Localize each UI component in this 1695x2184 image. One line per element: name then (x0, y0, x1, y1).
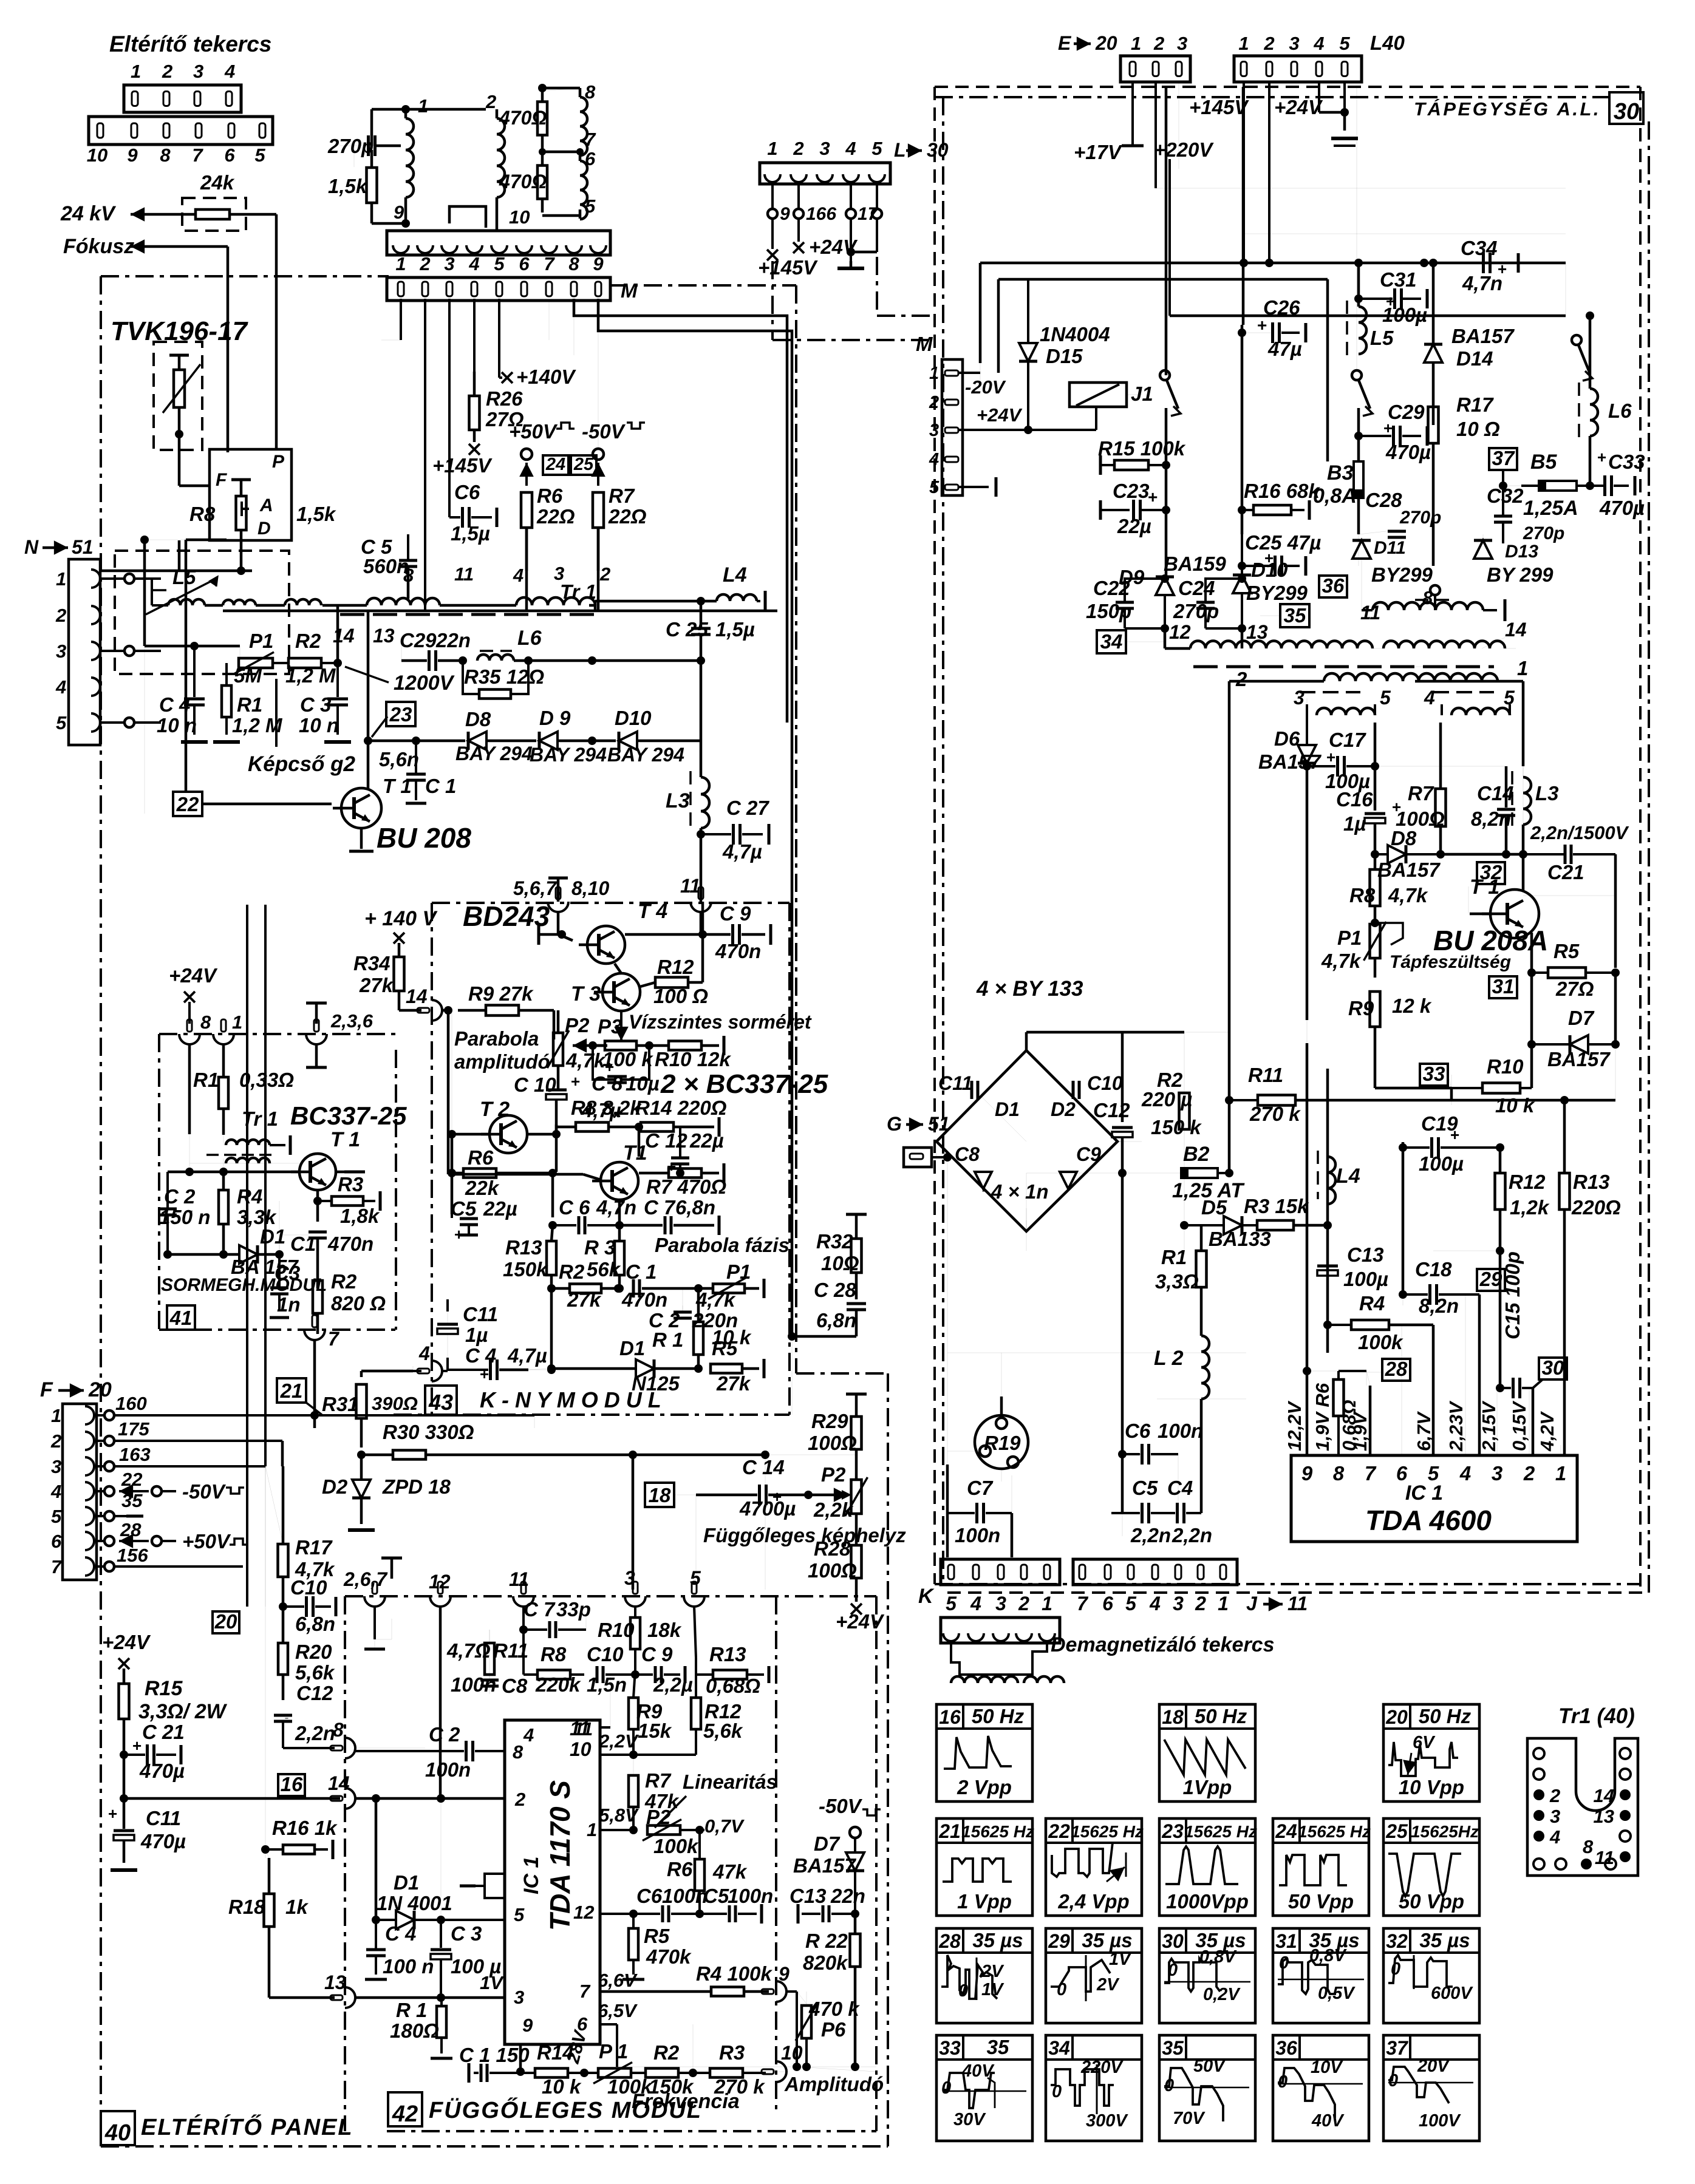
svg-text:2,2n: 2,2n (1130, 1524, 1171, 1546)
svg-text:20: 20 (1385, 1706, 1408, 1728)
svg-text:6,8n: 6,8n (675, 1196, 715, 1219)
svg-text:C 1: C 1 (425, 775, 456, 797)
svg-text:D 9: D 9 (539, 707, 571, 729)
svg-text:2: 2 (1263, 33, 1274, 54)
svg-text:R20: R20 (295, 1641, 332, 1663)
svg-text:5: 5 (871, 138, 882, 159)
svg-text:TDA 1170 S: TDA 1170 S (544, 1780, 576, 1931)
svg-text:amplitudó: amplitudó (454, 1050, 550, 1073)
svg-text:10 k: 10 k (542, 2075, 582, 2098)
svg-text:820 Ω: 820 Ω (331, 1292, 386, 1315)
waveform box 18 (1159, 1704, 1255, 1801)
svg-text:F: F (40, 1378, 53, 1401)
svg-text:C7: C7 (967, 1477, 994, 1499)
svg-text:1,9V: 1,9V (1349, 1411, 1371, 1451)
svg-text:Linearitás: Linearitás (683, 1771, 777, 1793)
svg-text:22Ω: 22Ω (608, 505, 647, 528)
svg-text:1V: 1V (1109, 1950, 1132, 1969)
svg-text:2: 2 (793, 138, 803, 159)
svg-text:D: D (257, 519, 271, 539)
svg-text:22µ: 22µ (483, 1197, 517, 1220)
svg-text:6: 6 (224, 145, 235, 166)
svg-text:8: 8 (1333, 1462, 1345, 1485)
svg-text:8: 8 (1422, 587, 1433, 608)
Tr1 core lines (340, 613, 598, 616)
svg-text:C8: C8 (502, 1675, 528, 1697)
svg-text:4: 4 (50, 1481, 61, 1502)
svg-text:1V: 1V (981, 1980, 1004, 1999)
svg-text:6: 6 (519, 253, 530, 274)
svg-text:L3: L3 (1535, 782, 1559, 805)
svg-text:D7: D7 (1568, 1007, 1595, 1029)
svg-text:1: 1 (1555, 1462, 1566, 1485)
svg-text:4 × BY 133: 4 × BY 133 (976, 977, 1083, 1001)
svg-text:4,7k: 4,7k (695, 1288, 736, 1311)
module 42 dashed border FUGGOLEGES MODUL (345, 1595, 876, 1597)
svg-text:C15 100p: C15 100p (1501, 1251, 1524, 1339)
svg-text:3: 3 (56, 641, 66, 662)
svg-text:C16: C16 (1336, 788, 1373, 811)
svg-text:L 2: L 2 (1154, 1347, 1184, 1370)
svg-text:R1: R1 (1161, 1246, 1187, 1268)
svg-text:50 Hz: 50 Hz (1419, 1705, 1472, 1727)
svg-text:R28: R28 (814, 1537, 851, 1560)
svg-text:100Ω: 100Ω (808, 1559, 857, 1582)
svg-text:+145V: +145V (1189, 96, 1249, 118)
box 22 label (173, 792, 202, 816)
T1 base wire (448, 1173, 583, 1176)
svg-text:100µ: 100µ (1382, 304, 1427, 326)
svg-text:L6: L6 (517, 627, 542, 650)
IC1 TDA4600 box (1291, 1455, 1577, 1542)
svg-text:14: 14 (1505, 619, 1527, 641)
svg-text:0: 0 (1164, 2076, 1174, 2095)
svg-text:Vízszintes sorméret: Vízszintes sorméret (629, 1011, 812, 1033)
bridge diamond (936, 1050, 1117, 1231)
svg-text:18: 18 (649, 1484, 671, 1506)
svg-text:2: 2 (55, 605, 66, 626)
svg-text:R31: R31 (322, 1393, 359, 1415)
box 28 label (1382, 1359, 1410, 1381)
svg-text:R7: R7 (609, 485, 635, 507)
svg-text:163: 163 (119, 1444, 151, 1465)
IC right side wires (600, 1726, 610, 1729)
svg-text:C10: C10 (290, 1576, 327, 1599)
diode D11 BY299 (1352, 540, 1371, 559)
svg-text:50 Vpp: 50 Vpp (1399, 1890, 1464, 1913)
svg-text:R13: R13 (1573, 1171, 1610, 1193)
svg-text:32: 32 (1386, 1930, 1408, 1952)
wire pin5 pin3 (441, 1919, 505, 1921)
svg-text:13: 13 (324, 1971, 346, 1993)
waveform box 37 (1383, 2035, 1479, 2141)
svg-text:1: 1 (587, 1819, 597, 1840)
svg-text:8: 8 (513, 1741, 524, 1763)
wires from M slots 8 9 to right (574, 299, 787, 723)
svg-text:R32: R32 (816, 1230, 853, 1253)
svg-text:-50V: -50V (819, 1795, 863, 1817)
svg-text:+24V: +24V (169, 964, 218, 987)
svg-text:30: 30 (1162, 1930, 1184, 1952)
svg-text:B5: B5 (1530, 451, 1558, 474)
svg-text:2: 2 (419, 253, 430, 274)
svg-text:10: 10 (87, 145, 107, 166)
wire 10 row (617, 2066, 876, 2067)
svg-text:10Ω: 10Ω (821, 1252, 859, 1274)
svg-text:+24V: +24V (836, 1610, 885, 1633)
core lines (1193, 665, 1494, 668)
svg-text:C11: C11 (938, 1072, 972, 1094)
svg-text:C6: C6 (454, 481, 480, 503)
svg-text:R34: R34 (353, 952, 390, 975)
svg-text:+: + (1383, 419, 1393, 437)
svg-text:470µ: 470µ (140, 1830, 186, 1852)
bridge inner diagonals (981, 1097, 1026, 1141)
waveform box 21 (936, 1818, 1032, 1916)
svg-text:R11: R11 (1248, 1064, 1283, 1086)
svg-text:0: 0 (1388, 2071, 1398, 2090)
svg-text:1: 1 (1238, 33, 1249, 54)
svg-text:6,7V: 6,7V (1413, 1411, 1434, 1451)
svg-text:5M: 5M (234, 664, 262, 687)
waveform box 24 (1273, 1818, 1369, 1916)
IC pin wires up (1369, 1415, 1371, 1455)
svg-text:15625 Hz: 15625 Hz (1184, 1822, 1257, 1841)
wire R10 down-left (1451, 1088, 1452, 1105)
svg-text:35: 35 (1284, 604, 1306, 627)
svg-text:5: 5 (1339, 33, 1350, 54)
svg-text:R 3: R 3 (584, 1236, 615, 1259)
pin4 -50V (119, 1490, 149, 1492)
svg-text:220V: 220V (1080, 2058, 1124, 2077)
svg-text:1200V: 1200V (394, 672, 455, 695)
svg-text:10 Vpp: 10 Vpp (1399, 1776, 1464, 1798)
svg-text:29: 29 (1048, 1930, 1070, 1952)
svg-text:Képcső g2: Képcső g2 (248, 752, 356, 776)
svg-text:0: 0 (1391, 1959, 1400, 1979)
svg-text:R8 8,2k: R8 8,2k (571, 1097, 642, 1119)
svg-text:P1: P1 (249, 630, 273, 652)
box 31 label (1489, 976, 1517, 998)
svg-text:D8: D8 (1391, 827, 1417, 849)
svg-text:C4: C4 (1167, 1477, 1193, 1499)
svg-text:2: 2 (1523, 1462, 1535, 1485)
wires from L40 (1243, 82, 1245, 234)
dash-dot wire from L30 down (771, 261, 774, 340)
core lines small (1300, 691, 1360, 693)
svg-text:4,7µ: 4,7µ (722, 840, 762, 863)
svg-text:1Vpp: 1Vpp (1183, 1776, 1232, 1798)
svg-text:R7: R7 (645, 1769, 672, 1792)
svg-text:C13: C13 (1347, 1243, 1384, 1266)
svg-text:4: 4 (929, 450, 939, 469)
svg-text:Parabola: Parabola (454, 1027, 539, 1050)
waveform box 30 (1159, 1928, 1255, 2023)
svg-text:470µ: 470µ (1599, 497, 1645, 519)
svg-text:L40: L40 (1370, 32, 1405, 54)
long vertical rails in right panel (1165, 87, 1168, 375)
waveform box 16 (936, 1704, 1032, 1801)
svg-text:C12: C12 (1093, 1099, 1130, 1121)
svg-text:C1: C1 (290, 1233, 316, 1255)
module 41 dashed border SORMEGH.MODUL (159, 1033, 396, 1035)
svg-text:42: 42 (392, 2101, 418, 2127)
svg-text:100 n: 100 n (383, 1955, 434, 1978)
boxes 24 25 (543, 455, 568, 475)
svg-text:R17: R17 (1456, 393, 1494, 416)
svg-text:C6: C6 (636, 1885, 663, 1907)
svg-text:2: 2 (162, 61, 172, 82)
svg-text:BA157: BA157 (1547, 1048, 1611, 1070)
svg-text:28: 28 (938, 1930, 961, 1952)
svg-text:21: 21 (938, 1820, 961, 1842)
svg-text:R 1: R 1 (652, 1328, 683, 1351)
wire left down to F20 (143, 540, 146, 646)
svg-text:2V: 2V (981, 1962, 1004, 1981)
svg-text:3: 3 (51, 1456, 61, 1477)
svg-text:D11: D11 (1374, 538, 1406, 558)
svg-text:BA159: BA159 (1164, 553, 1226, 575)
svg-text:0: 0 (1057, 1980, 1066, 1999)
svg-text:8: 8 (1583, 1836, 1594, 1857)
svg-text:25: 25 (573, 455, 594, 474)
svg-text:T 1: T 1 (330, 1128, 360, 1151)
svg-text:51: 51 (72, 536, 94, 558)
svg-text:470n: 470n (621, 1288, 667, 1311)
svg-text:R 1: R 1 (396, 1999, 427, 2021)
svg-text:3: 3 (193, 61, 203, 82)
svg-text:C31: C31 (1380, 268, 1417, 291)
svg-text:0,7V: 0,7V (704, 1815, 745, 1837)
svg-text:6,8n: 6,8n (295, 1613, 335, 1635)
svg-text:2: 2 (599, 563, 610, 585)
svg-text:10: 10 (781, 2042, 803, 2064)
svg-text:2,3,6: 2,3,6 (330, 1010, 373, 1032)
svg-text:IC 1: IC 1 (520, 1857, 543, 1894)
svg-text:C11: C11 (146, 1807, 181, 1829)
svg-text:14: 14 (328, 1772, 350, 1794)
svg-text:1k: 1k (285, 1896, 309, 1918)
svg-text:N: N (24, 536, 39, 558)
svg-text:Tr 1: Tr 1 (560, 580, 596, 603)
svg-text:9: 9 (522, 2015, 533, 2036)
svg-text:2,6,7: 2,6,7 (343, 1568, 388, 1590)
svg-text:0,8A: 0,8A (1313, 485, 1357, 508)
svg-text:1µ: 1µ (1343, 812, 1366, 835)
wire junction to N51 (178, 540, 181, 571)
wire top to TDA (1229, 905, 1230, 1100)
svg-text:11: 11 (1287, 1593, 1308, 1614)
svg-text:2,2n: 2,2n (295, 1722, 335, 1744)
svg-text:R16 68k: R16 68k (1244, 480, 1320, 502)
svg-text:100n: 100n (662, 1885, 708, 1907)
svg-text:R1: R1 (237, 693, 262, 716)
svg-text:4: 4 (224, 61, 235, 82)
svg-text:22k: 22k (465, 1177, 500, 1199)
svg-text:D10: D10 (615, 707, 652, 729)
svg-text:C 1: C 1 (626, 1260, 657, 1283)
svg-text:4: 4 (970, 1593, 981, 1614)
svg-text:10µ: 10µ (626, 1072, 660, 1095)
svg-text:70V: 70V (1173, 2109, 1206, 2128)
svg-text:1000Vpp: 1000Vpp (1166, 1890, 1249, 1913)
svg-text:2: 2 (1235, 668, 1247, 690)
svg-text:9: 9 (780, 204, 790, 224)
rail y1006 (223, 610, 777, 613)
wire pin4 to left (361, 1370, 413, 1373)
svg-text:35: 35 (1162, 2037, 1184, 2059)
svg-text:0,15V: 0,15V (1509, 1401, 1530, 1451)
svg-text:C24: C24 (1178, 577, 1215, 599)
node 14 (444, 1006, 452, 1015)
svg-text:25: 25 (1385, 1820, 1408, 1842)
svg-text:R2: R2 (1157, 1069, 1183, 1091)
svg-text:C12: C12 (296, 1682, 333, 1704)
svg-text:100V: 100V (1419, 2111, 1461, 2131)
long verticals left (246, 905, 248, 1607)
svg-text:TDA 4600: TDA 4600 (1365, 1505, 1492, 1536)
svg-text:270p: 270p (327, 135, 373, 157)
svg-text:35 µs: 35 µs (972, 1929, 1023, 1951)
svg-text:R5: R5 (712, 1337, 738, 1359)
svg-text:8: 8 (160, 145, 171, 166)
svg-text:2: 2 (1018, 1593, 1029, 1614)
svg-text:15k: 15k (638, 1720, 672, 1742)
svg-text:+: + (1264, 549, 1274, 567)
svg-text:BY299: BY299 (1371, 563, 1433, 586)
svg-text:34: 34 (1048, 2037, 1070, 2059)
svg-text:1: 1 (767, 138, 777, 159)
svg-text:4,7n: 4,7n (1462, 272, 1502, 294)
coil L5 right panel (1359, 307, 1366, 354)
svg-text:L5: L5 (1370, 327, 1394, 349)
box 29 label (1477, 1269, 1505, 1291)
svg-text:R4: R4 (237, 1185, 262, 1208)
svg-text:10 k: 10 k (1495, 1094, 1535, 1117)
svg-text:Demagnetizáló tekercs: Demagnetizáló tekercs (1051, 1633, 1275, 1656)
svg-text:C 21: C 21 (142, 1721, 185, 1743)
wire pin6 (600, 2023, 617, 2026)
svg-text:C 28: C 28 (814, 1279, 856, 1301)
svg-text:22µ: 22µ (689, 1129, 724, 1152)
svg-text:4: 4 (845, 138, 856, 159)
svg-text:2,23V: 2,23V (1445, 1401, 1467, 1452)
svg-text:2: 2 (514, 1789, 525, 1810)
svg-text:0,8V: 0,8V (1199, 1947, 1237, 1967)
switch arm 3 (1572, 335, 1581, 345)
svg-text:T 2: T 2 (480, 1098, 510, 1121)
svg-text:C9: C9 (1076, 1143, 1101, 1165)
svg-text:1: 1 (51, 1405, 61, 1426)
svg-text:+17V: +17V (1074, 141, 1123, 163)
svg-text:C 9: C 9 (720, 902, 751, 925)
box 20 label (213, 1611, 239, 1633)
svg-text:1,5k: 1,5k (328, 175, 368, 197)
svg-text:35 µs: 35 µs (1419, 1929, 1470, 1951)
svg-text:Amplitudó: Amplitudó (784, 2073, 884, 2095)
box 30 label (1539, 1358, 1567, 1379)
svg-text:22µ: 22µ (1117, 515, 1151, 537)
svg-text:175: 175 (118, 1418, 149, 1440)
svg-text:C 4: C 4 (385, 1922, 416, 1945)
svg-text:220Ω: 220Ω (1571, 1196, 1621, 1219)
svg-text:T 1: T 1 (1470, 876, 1499, 899)
svg-text:470n: 470n (715, 940, 761, 962)
svg-text:R3: R3 (719, 2041, 745, 2064)
svg-text:22n: 22n (435, 629, 471, 651)
svg-text:+24V: +24V (102, 1631, 151, 1653)
svg-text:28: 28 (1385, 1358, 1408, 1380)
svg-text:R12: R12 (1509, 1171, 1546, 1193)
svg-text:P: P (272, 452, 285, 472)
svg-text:R6: R6 (468, 1146, 494, 1169)
svg-text:C34: C34 (1461, 237, 1498, 259)
svg-text:R5: R5 (644, 1925, 670, 1947)
svg-text:R8: R8 (541, 1643, 567, 1665)
M connector slots (387, 277, 610, 301)
pin6 +50V (119, 1540, 149, 1542)
svg-text:8,10: 8,10 (571, 877, 609, 899)
svg-text:F: F (216, 470, 227, 490)
pin9 wire down (519, 2044, 522, 2072)
module border inner right (775, 1596, 777, 2112)
svg-text:22Ω: 22Ω (536, 505, 575, 528)
svg-text:2: 2 (1195, 1593, 1206, 1614)
svg-text:470µ: 470µ (139, 1760, 185, 1782)
label +140V top (502, 372, 513, 383)
wire 14 row (124, 1797, 340, 1800)
svg-text:R7: R7 (1408, 782, 1434, 805)
svg-text:BA157: BA157 (1451, 325, 1515, 347)
svg-text:34: 34 (1100, 630, 1123, 653)
wire pin2 (372, 1794, 380, 1803)
svg-text:2 Vpp: 2 Vpp (957, 1776, 1012, 1798)
coil L2 right panel (1201, 1336, 1209, 1399)
waveform box 23 (1159, 1818, 1255, 1916)
svg-text:J1: J1 (1131, 383, 1153, 405)
svg-text:ELTÉRÍTŐ PANEL: ELTÉRÍTŐ PANEL (141, 2114, 353, 2140)
svg-text:11: 11 (1595, 1847, 1614, 1868)
long verticals from knymod (632, 1455, 633, 1596)
svg-text:+50V: +50V (182, 1530, 231, 1553)
svg-text:Tr1 (40): Tr1 (40) (1558, 1704, 1635, 1728)
svg-text:C5: C5 (703, 1885, 729, 1907)
svg-text:D1: D1 (619, 1337, 645, 1359)
svg-text:R2: R2 (295, 630, 321, 652)
box 35 label (1280, 604, 1309, 627)
svg-text:-20V: -20V (965, 376, 1006, 398)
svg-text:+: + (480, 1365, 489, 1383)
svg-text:C32: C32 (1487, 485, 1524, 507)
svg-text:3: 3 (995, 1593, 1006, 1614)
svg-text:9: 9 (127, 145, 138, 166)
svg-text:36: 36 (1275, 2037, 1297, 2059)
svg-text:50 Hz: 50 Hz (972, 1705, 1025, 1727)
svg-text:+: + (132, 1737, 142, 1755)
svg-text:51: 51 (928, 1113, 950, 1135)
svg-text:5: 5 (514, 1904, 525, 1925)
svg-text:6: 6 (1102, 1593, 1113, 1614)
svg-text:C 6: C 6 (559, 1196, 590, 1219)
svg-text:3: 3 (1289, 33, 1299, 54)
svg-text:22: 22 (1048, 1820, 1070, 1842)
svg-text:D1: D1 (260, 1225, 285, 1248)
waveform box 35 (1159, 2035, 1255, 2141)
svg-text:P 1: P 1 (599, 2040, 628, 2063)
svg-text:Eltérítő tekercs: Eltérítő tekercs (109, 32, 271, 56)
svg-text:1: 1 (929, 364, 939, 383)
pin 7 bump (304, 1330, 325, 1340)
